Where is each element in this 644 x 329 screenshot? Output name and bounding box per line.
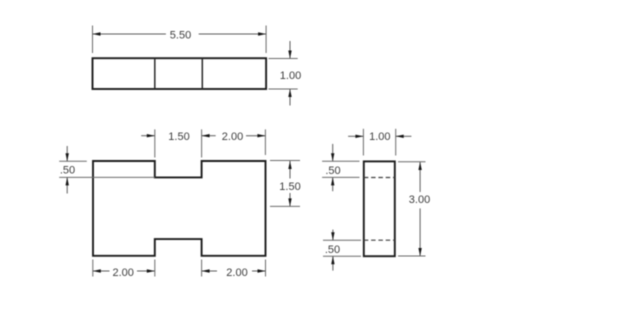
dimension 1.00 (top view height) bbox=[269, 41, 302, 106]
dimension 3.00 (side view height) bbox=[398, 162, 430, 256]
top view right notch edge line bbox=[201, 58, 203, 89]
side view hidden line (bottom) bbox=[364, 239, 395, 241]
svg-text:2.00: 2.00 bbox=[222, 131, 243, 143]
side view outline bbox=[364, 161, 395, 256]
dimension 1.00 (side view width) bbox=[348, 129, 411, 156]
svg-text:1.00: 1.00 bbox=[369, 131, 390, 143]
dimension .50 (side view bottom) bbox=[323, 230, 361, 271]
svg-text:5.50: 5.50 bbox=[170, 30, 191, 42]
top view outline bbox=[93, 58, 267, 89]
dimension .50 (side view top) bbox=[322, 144, 359, 191]
top view left notch edge line bbox=[154, 58, 156, 89]
svg-text:1.50: 1.50 bbox=[168, 131, 189, 143]
svg-text:1.50: 1.50 bbox=[279, 181, 300, 193]
dimension 5.50 (top view width) bbox=[93, 26, 267, 54]
extension line through front view at notch depth bbox=[59, 176, 155, 178]
dimension 2.00 (front view bottom left segment) bbox=[93, 260, 155, 279]
dimension 1.50 (front view top notch width) bbox=[141, 129, 201, 157]
svg-text:2.00: 2.00 bbox=[226, 267, 247, 279]
svg-text:3.00: 3.00 bbox=[409, 194, 430, 206]
dimension 2.00 (front view top right segment) bbox=[202, 129, 266, 155]
dimension 1.50 (front view right side) bbox=[270, 161, 301, 207]
side view hidden line (top) bbox=[364, 177, 395, 179]
svg-text:2.00: 2.00 bbox=[112, 267, 133, 279]
dimension 2.00 (front view bottom right segment) bbox=[202, 260, 266, 279]
svg-text:.50: .50 bbox=[325, 165, 340, 177]
front view H-shaped outline bbox=[93, 161, 266, 256]
svg-text:1.00: 1.00 bbox=[280, 70, 301, 82]
svg-text:.50: .50 bbox=[325, 244, 340, 256]
svg-text:.50: .50 bbox=[60, 165, 75, 177]
dimension .50 (front view notch depth, left) bbox=[59, 146, 87, 194]
